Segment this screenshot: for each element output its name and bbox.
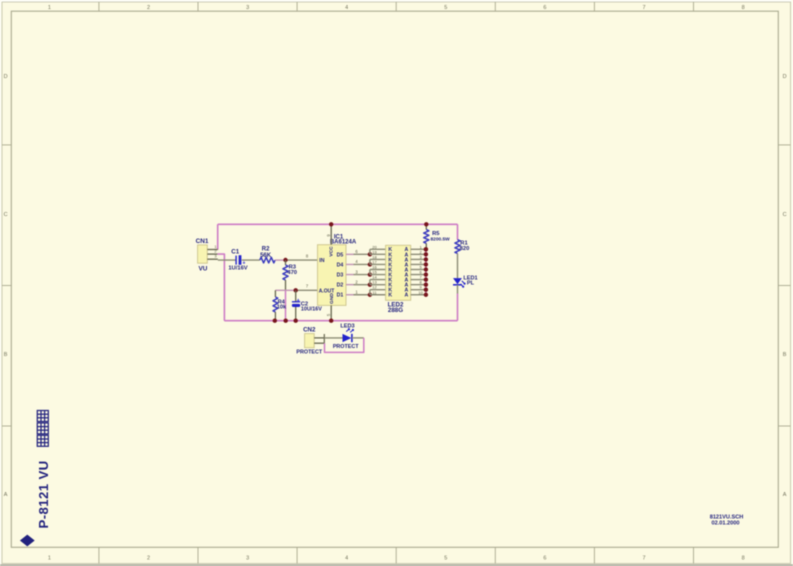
svg-text:VCC: VCC	[329, 246, 335, 257]
GND rail junction R4	[273, 319, 277, 323]
IC1 D5 pin wire	[346, 249, 370, 254]
document date 02.01.2000	[712, 521, 740, 527]
svg-text:4: 4	[345, 5, 348, 11]
GND rail junction C2	[294, 319, 298, 323]
LED1 value PL	[467, 281, 475, 287]
wire D2 pair stub	[370, 280, 386, 285]
IC1 D3 pin wire	[346, 269, 370, 274]
svg-text:BA6124A: BA6124A	[330, 239, 357, 245]
svg-text:3: 3	[246, 5, 249, 11]
svg-text:CN1: CN1	[196, 238, 209, 245]
document name 8121VU.SCH	[710, 515, 744, 521]
op-amp U1 body IC1	[318, 245, 347, 306]
CN1 pin 2	[207, 249, 217, 255]
svg-text:1: 1	[48, 556, 51, 562]
svg-text:6: 6	[543, 556, 546, 562]
wire LED1 to GND rail	[457, 285, 459, 321]
svg-text:56K: 56K	[260, 253, 272, 259]
page bottom edge shadow	[0, 564, 793, 566]
resistor R3 value	[287, 270, 297, 276]
LED2 anode wires and pin numbers 1-10	[411, 244, 426, 294]
IC1 GND pin	[326, 305, 331, 320]
svg-text:288G: 288G	[388, 307, 403, 314]
svg-text:D1: D1	[337, 293, 344, 299]
resistor R3 label	[289, 265, 297, 271]
LED1 label	[463, 275, 477, 281]
svg-text:A: A	[405, 293, 409, 299]
resistor R5 value	[431, 236, 451, 242]
wire VCC rail to R1	[457, 224, 459, 239]
svg-text:C: C	[4, 212, 8, 218]
svg-text:VU: VU	[199, 266, 208, 273]
wire R2 to IC1 IN	[275, 259, 317, 261]
svg-text:PROTECT: PROTECT	[333, 344, 359, 350]
LED2 label	[388, 301, 404, 308]
svg-text:LED3: LED3	[340, 323, 354, 329]
frame row ticks	[2, 145, 791, 426]
CN1 pin 1	[207, 244, 217, 250]
node D1 junction	[368, 293, 372, 297]
IC1 pin 7 number	[306, 284, 309, 289]
IC1 IN label	[319, 258, 324, 264]
node D2 junction	[368, 282, 372, 286]
svg-text:7: 7	[642, 556, 645, 562]
frame row letters	[4, 74, 787, 498]
connector CN2 label	[303, 326, 316, 333]
svg-text:+: +	[297, 298, 300, 304]
IC1 VCC pin	[326, 224, 331, 244]
svg-text:2: 2	[147, 556, 150, 562]
CN2 pin tick	[323, 334, 325, 343]
wire D1 pair stub	[370, 290, 386, 295]
svg-text:10U/16V: 10U/16V	[301, 307, 322, 313]
svg-text:02.01.2000: 02.01.2000	[712, 521, 740, 527]
node D5 junction	[368, 252, 372, 256]
sheet title text P-8121 VU	[36, 460, 51, 528]
node IN junction	[283, 258, 287, 262]
svg-text:8: 8	[742, 556, 745, 562]
GND rail junction R3	[284, 319, 288, 323]
IC1 output D1 label	[337, 293, 344, 299]
svg-text:D: D	[4, 74, 8, 80]
wire LED3 to loop	[352, 337, 364, 339]
svg-text:IN: IN	[319, 258, 324, 264]
svg-text:PROTECT: PROTECT	[296, 350, 322, 356]
resistor R2 value	[260, 253, 272, 259]
svg-text:PL: PL	[467, 281, 475, 287]
wire C1 to R2	[242, 259, 260, 261]
svg-text:A.OUT: A.OUT	[319, 288, 335, 294]
IC1 refdes	[334, 234, 344, 240]
CN1 pin 3	[207, 254, 218, 260]
page left edge highlight	[0, 0, 1, 566]
svg-text:8: 8	[742, 5, 745, 11]
IC1 VCC label	[329, 246, 335, 257]
svg-text:D2: D2	[337, 283, 344, 289]
wire R1 to LED1	[457, 254, 459, 279]
svg-text:2: 2	[147, 5, 150, 11]
IC1 A.OUT label	[319, 288, 335, 294]
sheet title diamond	[20, 535, 35, 547]
svg-text:820: 820	[460, 246, 470, 252]
capacitor C2	[292, 290, 300, 320]
anode bus junction dots	[424, 247, 428, 297]
connector CN1 body	[198, 245, 208, 263]
capacitor C1	[236, 255, 245, 266]
IC1 output D3 label	[337, 272, 344, 278]
resistor R1 label	[460, 241, 468, 247]
svg-text:C1: C1	[231, 249, 239, 256]
resistor R2	[260, 257, 275, 263]
svg-text:10: 10	[418, 290, 423, 295]
svg-text:A: A	[783, 492, 787, 498]
IC1 D4 pin wire	[346, 259, 370, 264]
node bus top junction	[424, 247, 428, 251]
svg-text:P-8121 VU: P-8121 VU	[36, 460, 51, 528]
IC1 output D4 label	[337, 262, 344, 268]
IC1 D1 pin wire	[346, 289, 370, 294]
node A.OUT junction	[294, 288, 298, 292]
wire D3 pair stub	[370, 270, 386, 275]
resistor R4	[273, 290, 278, 320]
LED2 left pin numbers 20-11	[372, 244, 377, 294]
sheet title CJK char 3	[37, 411, 48, 422]
frame column ticks	[99, 2, 694, 564]
IC1 value BA6124A	[330, 239, 357, 245]
connector CN1 label	[196, 238, 209, 245]
svg-text:C: C	[783, 212, 787, 218]
svg-text:B: B	[4, 352, 8, 358]
svg-text:5: 5	[444, 5, 447, 11]
svg-text:D: D	[783, 74, 787, 80]
connector CN2 value PROTECT	[296, 350, 322, 356]
capacitor C2 value	[301, 307, 322, 313]
wire D4 pair stub	[370, 259, 386, 264]
IC1 output D2 label	[337, 283, 344, 289]
svg-text:5: 5	[444, 556, 447, 562]
net label PROTECT	[333, 344, 359, 350]
wire VCC top rail	[218, 223, 458, 225]
IC1 GND label	[329, 293, 335, 304]
svg-text:A: A	[4, 492, 8, 498]
wire anode bus	[425, 249, 427, 294]
node VCC rail junction R5	[424, 222, 428, 226]
svg-text:R5: R5	[432, 231, 440, 237]
resistor R4 label	[278, 299, 286, 305]
resistor R1	[455, 240, 460, 254]
LED LED3	[343, 329, 354, 343]
svg-text:7: 7	[642, 5, 645, 11]
node GND rail junction IC1	[329, 319, 333, 323]
IC1 D2 pin wire	[346, 279, 370, 284]
svg-text:B: B	[783, 352, 787, 358]
svg-text:D3: D3	[337, 272, 344, 278]
resistor R4 value	[277, 305, 287, 311]
connector CN1 value VU	[199, 266, 208, 273]
node VCC rail junction IC1	[329, 222, 333, 226]
wire A.OUT	[275, 289, 317, 291]
svg-text:3: 3	[246, 556, 249, 562]
node D4 junction	[368, 262, 372, 266]
CN2 pin 2	[314, 342, 324, 344]
resistor R1 value	[460, 246, 470, 252]
LED array LED2 body	[386, 245, 411, 300]
svg-text:CN2: CN2	[303, 326, 316, 333]
wire GND bottom rail	[224, 320, 457, 322]
resistor R5	[424, 224, 429, 249]
page right edge highlight	[792, 0, 793, 566]
capacitor C1 label	[231, 249, 239, 256]
svg-text:D5: D5	[337, 252, 344, 258]
capacitor C2 label	[301, 301, 308, 307]
wire CN1 pin3 to C1	[218, 259, 236, 261]
resistor R3	[283, 260, 288, 290]
IC1 pin 8 number	[306, 253, 309, 258]
wire R3 to GND rail	[285, 290, 287, 320]
wire D5 pair stub	[370, 249, 386, 254]
IC1 output D5 label	[337, 252, 344, 258]
capacitor C1 value	[228, 266, 247, 272]
page top edge highlight	[0, 0, 793, 2]
wire CN1 pin1 to VCC rail	[217, 224, 219, 250]
resistor R2 label	[262, 246, 270, 252]
svg-text:8200.5W: 8200.5W	[431, 236, 451, 242]
wire CN2 pin1 to LED3	[324, 337, 342, 339]
svg-text:D4: D4	[337, 262, 344, 268]
svg-text:10k: 10k	[277, 305, 287, 311]
LED3 label	[340, 323, 354, 329]
svg-text:K: K	[388, 293, 392, 299]
sheet title CJK char 1	[37, 435, 48, 446]
svg-text:6: 6	[543, 5, 546, 11]
LED2 value 288G	[388, 307, 403, 314]
CN2 pin 1	[314, 337, 324, 339]
connector CN2 body	[305, 334, 315, 348]
sheet title CJK char 2	[37, 423, 48, 434]
svg-text:1U/16V: 1U/16V	[228, 266, 247, 272]
node D3 junction	[368, 272, 372, 276]
svg-text:470: 470	[287, 270, 297, 276]
LED2 K A pin labels	[388, 247, 408, 298]
svg-text:1: 1	[48, 5, 51, 11]
resistor R5 label	[432, 231, 440, 237]
wire protect loop	[325, 338, 364, 353]
svg-text:R2: R2	[262, 246, 270, 252]
svg-text:4: 4	[345, 556, 348, 562]
LED LED1	[453, 278, 465, 287]
wire CN1 pin2 to GND rail	[217, 254, 224, 321]
